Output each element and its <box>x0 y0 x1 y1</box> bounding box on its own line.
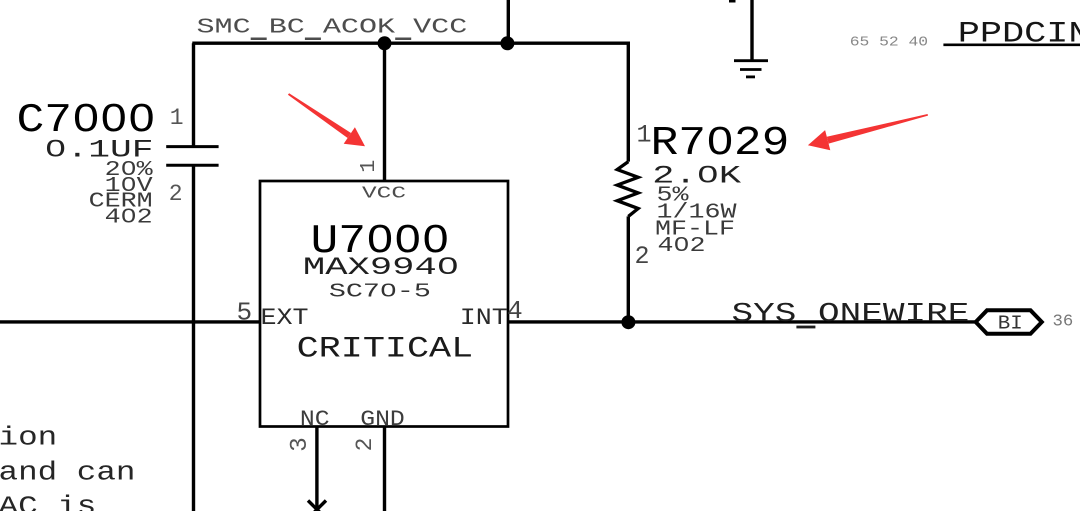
junction dot at VCC tap <box>378 36 392 50</box>
white mask over dotted zero of R7029 <box>716 136 724 146</box>
white masks over dotted zeros (R7029 values, MAX9940, SC70-5) <box>705 170 711 178</box>
wire: below C7000 down to bottom edge <box>192 165 195 511</box>
svg-text:SYS ONEWIRE: SYS ONEWIRE <box>732 300 970 329</box>
svg-text:AC is: AC is <box>0 493 96 511</box>
svg-text:SC70-5: SC70-5 <box>329 281 431 302</box>
junction dot at x=508 stub <box>500 36 514 50</box>
svg-text:MAX9940: MAX9940 <box>303 254 459 281</box>
svg-text:2: 2 <box>634 242 649 271</box>
svg-text:1: 1 <box>170 105 184 131</box>
no-connect X on NC pin <box>308 501 326 511</box>
svg-text:VCC: VCC <box>362 185 406 203</box>
svg-text:2: 2 <box>169 181 183 207</box>
white masks over dotted zeros (small texts) <box>53 144 59 152</box>
svg-text:SMC BC ACOK VCC: SMC BC ACOK VCC <box>197 15 468 40</box>
underscore of SYS_ONEWIRE <box>796 326 815 329</box>
partial mark at top edge left of ground stem <box>729 0 736 3</box>
svg-text:and can: and can <box>0 458 136 487</box>
off-page connector hexagon BI <box>976 310 1042 334</box>
wire: resistor bottom to junction <box>627 216 630 322</box>
U7000 VCC pin wire <box>383 43 386 181</box>
wire: vertical stub at x=508 from top edge down to net <box>507 0 510 43</box>
underscores of SMC_BC_ACOK_VCC <box>251 38 267 41</box>
svg-text:ion: ion <box>0 424 57 453</box>
wire: top horizontal SMC_BC_ACOK_VCC net, turning down to resistor <box>192 43 628 161</box>
red annotation arrow 1 pointing at U7000 VCC pin <box>288 93 365 146</box>
svg-text:NC: NC <box>300 407 330 433</box>
ground symbol (top right) <box>750 0 753 61</box>
wire: left vertical from top wire to C7000 top plate <box>192 43 195 146</box>
svg-text:EXT: EXT <box>261 306 309 332</box>
svg-text:2: 2 <box>352 438 378 452</box>
wire: EXT net to left edge <box>0 320 260 323</box>
white masks over dotted zeros of MAX9940 and SC70-5 <box>445 262 450 269</box>
U7000 NC pin wire <box>315 427 318 510</box>
svg-text:GND: GND <box>360 407 405 433</box>
U7000 GND pin wire <box>383 427 386 511</box>
svg-text:36: 36 <box>1053 313 1074 332</box>
junction dot at SYS_ONEWIRE tap <box>621 315 635 329</box>
resistor R7029 zigzag body <box>617 162 638 217</box>
op-amp U7000 box <box>260 181 508 427</box>
svg-text:3: 3 <box>287 437 314 452</box>
red annotation arrow 2 pointing at R7029 <box>808 114 928 150</box>
svg-text:65 52 40: 65 52 40 <box>850 36 928 50</box>
capacitor C7000 symbol plates <box>166 145 218 148</box>
svg-text:1: 1 <box>357 160 381 173</box>
svg-text:1: 1 <box>636 120 651 149</box>
wire: INT net to hexagon <box>508 320 976 323</box>
white masks over dotted zeros of C7000 <box>82 113 90 123</box>
svg-text:PPDCIN: PPDCIN <box>958 18 1080 52</box>
svg-text:BI: BI <box>998 313 1023 335</box>
svg-text:INT: INT <box>460 306 508 332</box>
PPDCIN underline <box>943 43 1080 46</box>
white masks over dotted zeros of U7000 <box>376 234 384 244</box>
svg-text:CRITICAL: CRITICAL <box>297 332 474 365</box>
